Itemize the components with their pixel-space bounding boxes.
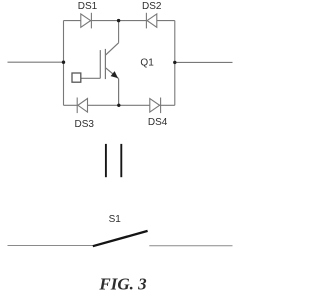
- wire input: [8, 61, 64, 63]
- gate box: [72, 73, 81, 82]
- svg-text:Q1: Q1: [140, 57, 154, 68]
- wire left vertical: [63, 21, 65, 106]
- wire bottom rail: [64, 104, 175, 106]
- switch S1 left wire: [8, 245, 93, 247]
- switch S1 right wire: [149, 245, 232, 247]
- diode DS1: [81, 13, 92, 29]
- switch S1 blade: [93, 231, 148, 246]
- diode DS2: [146, 13, 156, 29]
- svg-text:FIG. 3: FIG. 3: [98, 275, 147, 294]
- diode DS4: [150, 98, 161, 114]
- IGBT Q1: [100, 43, 118, 106]
- IGBT Q1 emitter arrowhead: [111, 71, 118, 78]
- wire top rail: [64, 20, 175, 22]
- junction node left: [62, 61, 65, 64]
- svg-text:DS2: DS2: [142, 1, 162, 12]
- svg-text:DS4: DS4: [148, 117, 168, 128]
- svg-text:S1: S1: [109, 214, 122, 225]
- gate wire: [81, 77, 101, 79]
- diode DS3: [77, 98, 87, 114]
- junction node top: [117, 19, 120, 22]
- svg-text:DS3: DS3: [74, 119, 94, 130]
- junction node bottom: [117, 104, 120, 107]
- wire collector vertical: [118, 21, 120, 43]
- wire right vertical: [174, 21, 176, 106]
- junction node right: [173, 61, 176, 64]
- svg-text:DS1: DS1: [78, 1, 98, 12]
- wire output: [175, 61, 233, 63]
- equivalence symbol bars: [106, 144, 121, 177]
